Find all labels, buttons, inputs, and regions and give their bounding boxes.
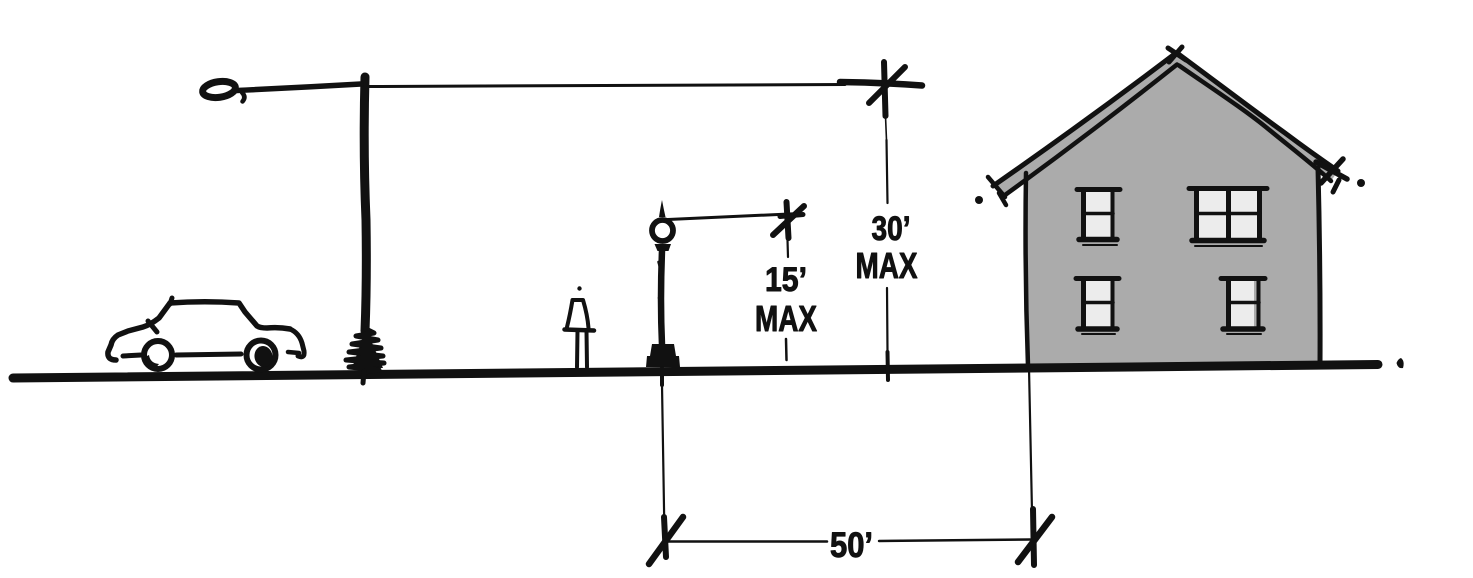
house right wall [1318, 168, 1320, 366]
50' dimension line right segment [879, 540, 1030, 542]
streetlight lamp head [202, 79, 237, 99]
right eave X mark [1316, 159, 1347, 192]
lamp post (15') [646, 200, 680, 385]
roof peak X mark [1168, 47, 1186, 62]
svg-text:MAX: MAX [755, 298, 817, 339]
house roof left slope (double line) [988, 53, 1177, 205]
pedestrian [565, 286, 595, 367]
50' label [830, 526, 873, 565]
15' MAX label [755, 261, 817, 339]
lower-right window [1221, 279, 1265, 335]
30' vertical leader [886, 116, 889, 380]
house left wall [1026, 173, 1028, 366]
15' dimension X mark [773, 202, 804, 238]
svg-text:MAX: MAX [856, 245, 918, 286]
15' leader below X [786, 240, 789, 257]
upper-left window [1077, 190, 1120, 246]
50' left extension line [662, 385, 665, 538]
dot right of eave [1357, 179, 1365, 187]
car rear wheel [144, 341, 172, 370]
15' dimension horizontal line [668, 214, 800, 220]
ground line [13, 365, 1378, 379]
car front wheel [247, 341, 276, 370]
50' right X mark [1018, 509, 1052, 565]
30' MAX label [856, 210, 918, 286]
15' dash above ground [785, 339, 788, 360]
svg-text:30’: 30’ [872, 210, 911, 248]
house gray body [993, 53, 1338, 366]
streetlight pole [346, 77, 384, 383]
dot left of eave [975, 196, 983, 204]
upper-right window [1189, 189, 1267, 247]
30' dimension X mark (top) [840, 62, 922, 116]
svg-text:15’: 15’ [765, 261, 807, 299]
house roof right slope (double line) [1177, 53, 1338, 181]
50' right extension line (house wall to X) [1029, 368, 1032, 512]
streetlight arm [237, 84, 361, 102]
50' dimension line left segment [668, 540, 827, 543]
road end mark [1397, 358, 1404, 368]
50' left X mark [649, 517, 683, 564]
lower-left window [1076, 279, 1119, 335]
car body [108, 298, 304, 360]
svg-text:50’: 50’ [830, 526, 873, 565]
30' dimension horizontal line [369, 85, 845, 87]
